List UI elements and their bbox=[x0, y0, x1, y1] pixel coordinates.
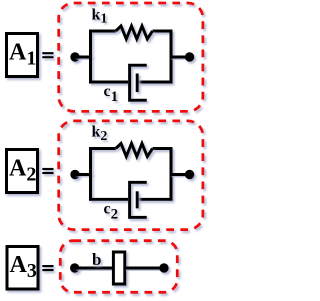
dashed boundary box row 3 bbox=[60, 241, 177, 293]
damper c2 bbox=[130, 182, 147, 217]
wire: left lead row 3 bbox=[75, 267, 114, 270]
spring k2 bbox=[116, 144, 153, 157]
node: right terminal row 2 bbox=[185, 170, 194, 179]
node: left terminal row 1 bbox=[70, 52, 79, 61]
label A3 (boxed) bbox=[7, 247, 38, 290]
dashed boundary box row 1 bbox=[59, 3, 203, 111]
wire: left lead row 2 bbox=[75, 173, 92, 176]
node: right terminal row 3 bbox=[159, 263, 168, 272]
wire: parallel frame row 2 bbox=[91, 149, 172, 200]
equals sign row 3 bbox=[42, 265, 53, 271]
equals sign row 2 bbox=[42, 168, 53, 174]
svg-text:b: b bbox=[92, 250, 101, 269]
wire: parallel frame row 1 bbox=[91, 31, 172, 82]
damper b (block) bbox=[113, 252, 124, 284]
wire: right lead row 1 bbox=[170, 56, 190, 59]
label A1 (boxed) bbox=[7, 34, 38, 77]
wire: left lead row 1 bbox=[75, 56, 92, 59]
wire: right lead row 3 bbox=[125, 267, 165, 270]
node: left terminal row 2 bbox=[70, 170, 79, 179]
label A2 (boxed) bbox=[7, 150, 38, 193]
equals sign row 1 bbox=[42, 52, 53, 58]
damper c1 bbox=[130, 65, 147, 100]
dashed boundary box row 2 bbox=[59, 121, 203, 230]
wire: right lead row 2 bbox=[170, 173, 190, 176]
spring k1 bbox=[116, 26, 153, 39]
node: right terminal row 1 bbox=[185, 52, 194, 61]
node: left terminal row 3 bbox=[70, 263, 79, 272]
